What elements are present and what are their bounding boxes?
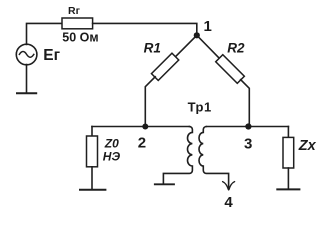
wire node 2 branch to Z0 bbox=[91, 127, 93, 137]
svg-text:50 Ом: 50 Ом bbox=[62, 30, 98, 44]
wire Z0 to ground bbox=[91, 167, 93, 189]
svg-text:R2: R2 bbox=[227, 40, 245, 55]
wire right bus bbox=[206, 126, 288, 128]
wire Zx to ground bbox=[287, 168, 289, 189]
wire R2 to node 3 bbox=[241, 80, 250, 127]
svg-text:4: 4 bbox=[224, 194, 233, 209]
node 1 bbox=[194, 32, 200, 38]
svg-text:R1: R1 bbox=[144, 40, 161, 55]
svg-text:Z0: Z0 bbox=[104, 137, 119, 151]
svg-text:Тр1: Тр1 bbox=[188, 99, 212, 114]
ground (Zx) bbox=[277, 188, 299, 190]
resistor Rr bbox=[62, 18, 93, 29]
wire left bus bbox=[92, 126, 189, 128]
transformer Tr1 right winding bbox=[199, 127, 229, 189]
svg-text:НЭ: НЭ bbox=[103, 150, 121, 164]
node 3 bbox=[245, 123, 251, 129]
load Zx bbox=[283, 137, 294, 168]
node 2 bbox=[142, 124, 148, 130]
resistor R2 bbox=[216, 55, 245, 84]
wire source bottom to ground bbox=[26, 65, 28, 93]
svg-text:Ег: Ег bbox=[43, 47, 60, 64]
svg-text:3: 3 bbox=[244, 135, 252, 152]
svg-text:2: 2 bbox=[138, 135, 146, 152]
load Z0 bbox=[87, 136, 98, 167]
ground (left winding) bbox=[155, 183, 174, 185]
node 4 arrow bbox=[223, 182, 235, 190]
wire source top to Rr bbox=[27, 23, 63, 44]
wire node 3 branch to Zx bbox=[287, 127, 289, 138]
wire node 1 to R2 bbox=[197, 35, 220, 58]
AC source Eg bbox=[16, 44, 37, 65]
svg-text:Zх: Zх bbox=[298, 138, 317, 154]
wire Rr to node 1 corner bbox=[93, 23, 197, 33]
ground (source) bbox=[17, 92, 36, 94]
svg-text:Rг: Rг bbox=[68, 5, 81, 17]
wire node 1 to R1 bbox=[175, 35, 196, 56]
svg-text:1: 1 bbox=[204, 18, 212, 35]
ground (Z0) bbox=[80, 189, 105, 191]
transformer Tr1 left winding bbox=[163, 127, 192, 184]
resistor R1 bbox=[151, 53, 178, 80]
wire R1 to node 2 bbox=[145, 77, 155, 127]
